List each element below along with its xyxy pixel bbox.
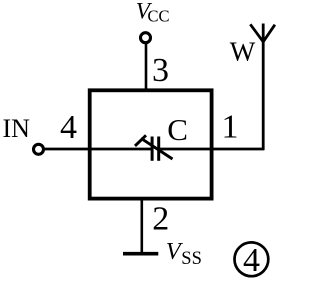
svg-text:SS: SS bbox=[181, 249, 202, 269]
figure number 4 circled bbox=[235, 242, 269, 276]
svg-text:C: C bbox=[167, 112, 188, 147]
svg-text:2: 2 bbox=[152, 201, 169, 238]
svg-text:W: W bbox=[230, 37, 256, 67]
svg-text:3: 3 bbox=[152, 52, 169, 89]
node VCC terminal circle bbox=[141, 33, 151, 43]
wire IN to capacitor left plate bbox=[45, 148, 151, 151]
ground VSS bar bbox=[123, 252, 158, 256]
wire pin2 vertical bbox=[141, 199, 144, 253]
antenna symbol bbox=[250, 24, 275, 42]
wire antenna vertical bbox=[262, 42, 265, 150]
capacitor C trimmer diagonal bbox=[141, 138, 173, 159]
svg-text:1: 1 bbox=[222, 109, 239, 146]
capacitor C left plate bbox=[151, 137, 154, 161]
wire pin3 vertical bbox=[145, 44, 148, 91]
node IN terminal circle bbox=[34, 144, 44, 154]
svg-text:CC: CC bbox=[148, 7, 170, 26]
op-amp U1 (IC box) bbox=[90, 90, 212, 198]
capacitor C trimmer T-bar bbox=[135, 135, 146, 146]
svg-text:IN: IN bbox=[3, 114, 31, 143]
capacitor C right plate bbox=[157, 137, 160, 161]
svg-text:4: 4 bbox=[243, 242, 260, 279]
wire capacitor right plate to antenna bbox=[160, 148, 265, 151]
svg-text:4: 4 bbox=[60, 109, 77, 146]
